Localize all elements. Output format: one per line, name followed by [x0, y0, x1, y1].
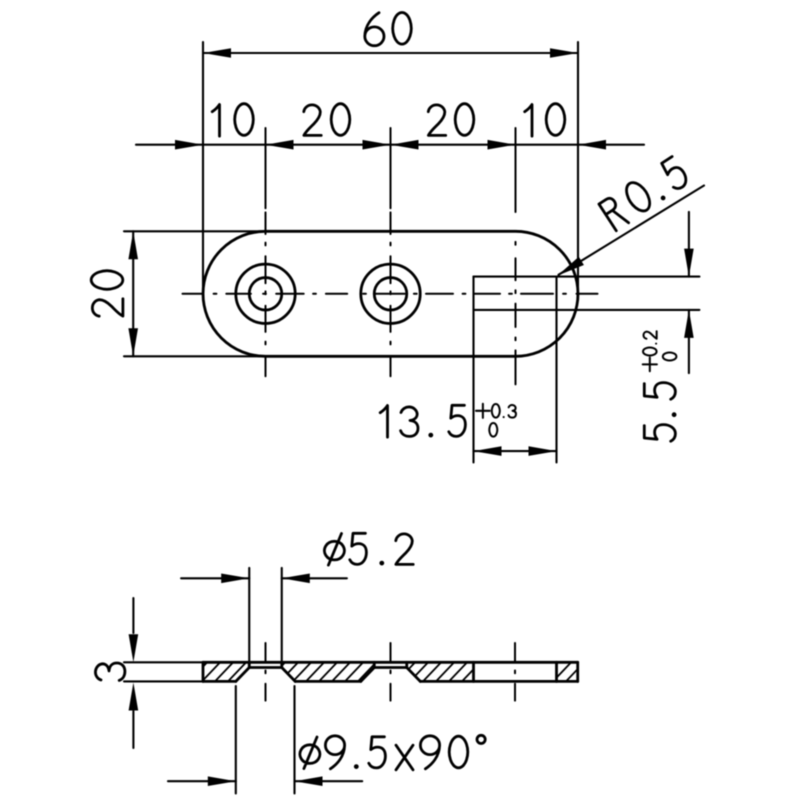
hole 2 section: bore walls, cone silhouette, countersink edges [373, 662, 376, 667]
label "10" second [525, 104, 565, 136]
section right edge [576, 662, 579, 681]
section slot centerline [514, 643, 516, 661]
3 dim arrow down [129, 634, 139, 662]
slot section edges [472, 662, 475, 681]
13.5 dimension line [474, 450, 557, 452]
10-20-20-10 dimension line [136, 144, 203, 146]
section hole 1 centerline [265, 643, 267, 661]
slot bottom edge + extension line for 5.5 dim [474, 309, 700, 311]
3 dim arrow up [129, 683, 139, 711]
label "3" vertical [95, 663, 124, 680]
3 dim extension lines [124, 661, 204, 663]
slot vertical centerline + extension line [515, 128, 517, 212]
label "o5.2" [324, 533, 413, 565]
tolerance "0" lower [489, 423, 497, 437]
o9.5 dimension line [168, 780, 236, 782]
13.5 arrow right [529, 446, 557, 456]
20 dim extension line top [124, 230, 266, 232]
slot top edge + extension line for 5.5 dim [474, 276, 700, 278]
label "20" second [428, 104, 473, 136]
slot left edge + extension line for 13.5 dim [472, 277, 474, 463]
row arrow at x265 pointing left [266, 140, 294, 150]
20 dim arrow down [128, 328, 138, 356]
label "5.5" vertical [644, 383, 676, 442]
o9.5 extension lines [235, 686, 237, 794]
row arrow at x203 (outside, pointing right) [175, 140, 203, 150]
section left edge [202, 662, 205, 681]
tolerance "+0.3" [476, 404, 516, 418]
60 dim extension line right [577, 42, 579, 300]
o9.5 arrow pointing left [295, 776, 323, 786]
o5.2 dimension line [181, 577, 249, 579]
label "13.5" [380, 405, 465, 437]
3 dimension line segments [132, 598, 134, 633]
tolerance "+0.2" [643, 331, 657, 371]
R0.5 leader line [559, 186, 705, 275]
20 dim extension line bottom [124, 355, 266, 357]
hole 1 counterbore circle (o9.5) [236, 264, 295, 323]
hole 2 bore circle (o5.2) [374, 278, 407, 311]
section hatching [188, 661, 598, 682]
o5.2 arrow pointing left [282, 574, 310, 584]
tolerance "0" lower (5.5 dim) [663, 353, 677, 361]
row arrow at x390 pointing right [363, 140, 391, 150]
label "R0.5" [599, 156, 691, 232]
20 dim arrow up [128, 231, 138, 259]
60 dim extension line left [202, 42, 204, 292]
5.5 dimension line upper segment [688, 212, 690, 277]
plate outline (obround 60x20) [203, 231, 578, 356]
label "20" first [304, 104, 350, 136]
60 dim arrow right [550, 48, 578, 58]
section hole 2 centerline [390, 643, 392, 661]
horizontal centerline of plate [183, 293, 204, 295]
60 dim arrow left [203, 48, 231, 58]
R0.5 leader arrowhead [558, 257, 584, 276]
label "10" first [212, 104, 253, 136]
o9.5 arrow pointing right [208, 776, 236, 786]
row arrow at x578 (outside, pointing left) [578, 140, 606, 150]
row arrow at x390 pointing left [391, 140, 419, 150]
section bottom face (broken at countersinks) [203, 680, 236, 683]
section top face [203, 661, 578, 664]
o5.2 arrow pointing right [221, 574, 249, 584]
5.5 arrow up [684, 310, 694, 338]
label "o9.5x90deg" [300, 735, 485, 770]
5.5 arrow down [684, 249, 694, 277]
5.5 dimension line lower segment [688, 310, 690, 373]
hole 2 vertical centerline + extension line [390, 128, 392, 208]
slot right edge + extension line for 13.5 dim [555, 277, 557, 463]
hole 1 bore circle (o5.2) [249, 278, 282, 311]
label "60" [365, 13, 411, 46]
60 dimension line [203, 52, 578, 54]
row arrow at x515 pointing right [488, 140, 516, 150]
hole 2 counterbore circle (o9.5) [361, 264, 420, 323]
hole 1 section: bore walls, cone silhouette, countersink edges [248, 662, 251, 667]
o5.2 extension lines [248, 568, 250, 662]
13.5 arrow left [474, 446, 502, 456]
label "20" vertical [91, 271, 123, 316]
20 dimension line [132, 231, 134, 356]
hole 1 vertical centerline + extension line [265, 128, 267, 208]
